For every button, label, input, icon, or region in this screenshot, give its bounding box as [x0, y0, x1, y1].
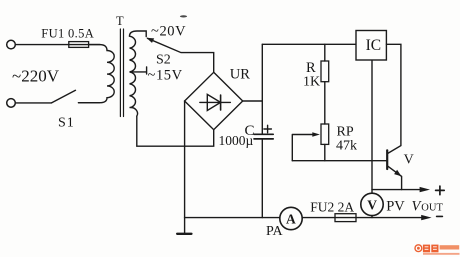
svg-text:47k: 47k [336, 138, 357, 153]
wire bottom input [15, 102, 51, 104]
wire DC minus to ground [184, 101, 186, 234]
label plus sign [436, 186, 445, 195]
bridge diode axis [200, 101, 231, 103]
svg-text:1000µ: 1000µ [219, 133, 254, 148]
transformer T secondary winding [130, 31, 147, 116]
bridge diode triangle [207, 94, 220, 110]
svg-text:~15V: ~15V [148, 68, 183, 84]
transformer T primary winding [79, 45, 115, 103]
svg-text:~220V: ~220V [12, 67, 60, 86]
base wire [292, 160, 386, 162]
voltmeter PV circle [361, 193, 383, 215]
label minus sign [437, 215, 443, 217]
fuse FU1 [69, 42, 89, 48]
wire S1 to transformer [79, 102, 100, 104]
wire R branch [324, 44, 326, 160]
switch S1 blade [52, 90, 76, 103]
svg-text:IC: IC [366, 37, 382, 54]
IC box [356, 31, 386, 61]
capacitor plus sign [264, 125, 272, 132]
bridge rectifier UR diamond [185, 72, 243, 129]
svg-text:V: V [367, 197, 377, 212]
terminal J2 (bottom input) [7, 99, 16, 108]
svg-text:PA: PA [266, 224, 284, 239]
wire IC to collector [386, 44, 401, 153]
wire secondary bottom to bridge [137, 116, 214, 146]
transformer T core [120, 29, 123, 117]
svg-text:UR: UR [230, 66, 250, 82]
wire top input [15, 44, 100, 46]
svg-text:A: A [286, 211, 296, 226]
bridge diode bar [220, 95, 222, 110]
plus output wire [372, 189, 421, 191]
svg-text:S2: S2 [156, 52, 171, 67]
switch S2 blade [148, 38, 214, 72]
svg-text:~20V: ~20V [151, 24, 186, 40]
wire DC plus riser [243, 44, 263, 217]
svg-text:T: T [116, 14, 124, 28]
bottom rail wire [185, 217, 423, 219]
terminal J1 (top input) [7, 40, 16, 49]
svg-text:1K: 1K [303, 74, 320, 89]
svg-text:V: V [404, 153, 414, 168]
transistor V base bar [386, 150, 388, 169]
arrow plus output [420, 187, 430, 192]
watermark logo [415, 245, 460, 255]
svg-text:PV: PV [386, 198, 405, 214]
RP wiper arrow line [292, 135, 314, 161]
IC sense wire [371, 60, 373, 218]
potentiometer RP body [321, 124, 329, 144]
transistor V emitter arrowhead [394, 170, 401, 176]
tap 15V tick [131, 67, 147, 74]
scan smudge [180, 15, 187, 17]
RP wiper arrowhead [312, 132, 320, 137]
resistor R body [321, 61, 329, 82]
svg-text:RP: RP [337, 124, 354, 139]
svg-text:FU1 0.5A: FU1 0.5A [41, 27, 94, 41]
svg-text:OUT: OUT [421, 202, 443, 213]
arrow minus output [421, 215, 431, 220]
capacitor C plates [254, 134, 273, 139]
ammeter PA circle [280, 207, 302, 229]
ground bar [177, 233, 191, 235]
top rail wire [262, 43, 356, 45]
svg-text:S1: S1 [58, 116, 75, 131]
svg-text:FU2 2A: FU2 2A [310, 200, 354, 215]
switch S2 arrowhead [146, 38, 154, 43]
transistor V emitter [388, 166, 402, 189]
fuse FU2 [335, 214, 356, 222]
